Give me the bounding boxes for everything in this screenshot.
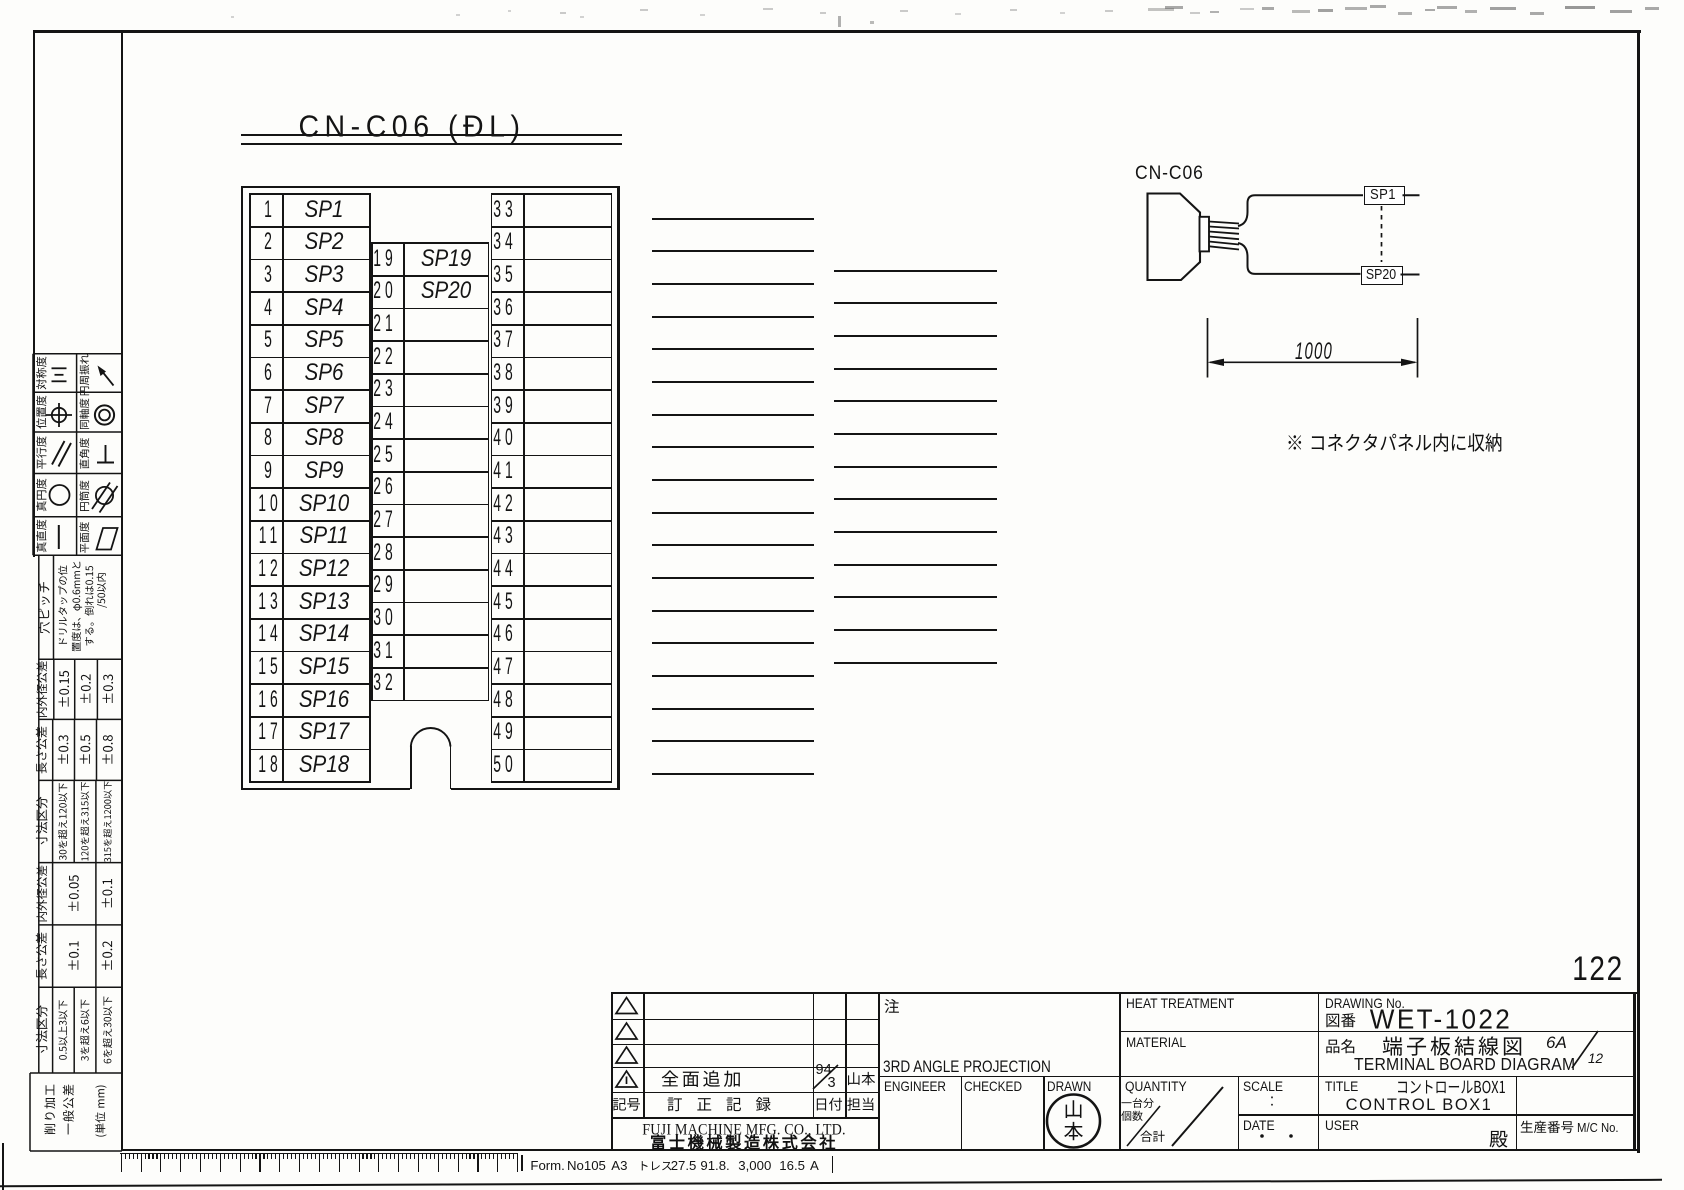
wire tail after SP1	[1403, 194, 1420, 196]
pin number 7	[264, 394, 276, 418]
revision header: correction record	[668, 1097, 771, 1111]
wire stub for pin 21	[834, 335, 997, 337]
circular runout arrow symbol	[101, 370, 114, 386]
pin number 12	[258, 557, 282, 581]
pin number 47	[494, 655, 518, 679]
length tolerance row 1	[36, 727, 47, 774]
heat treatment cell	[1126, 997, 1234, 1011]
pin number 28	[373, 541, 397, 565]
inner/outer dia tolerance row 2	[36, 866, 47, 922]
dimension extension line right	[1417, 318, 1419, 378]
page frame top border	[33, 30, 1641, 33]
connector cable clamp	[1200, 217, 1210, 252]
title cell	[1325, 1080, 1358, 1094]
wire stub for pin 29	[834, 596, 997, 598]
note: stored inside connector panel	[1288, 433, 1501, 451]
signal label SP20	[421, 279, 471, 304]
company name english	[642, 1122, 845, 1138]
size range row 1	[36, 797, 48, 846]
signal label SP19	[421, 246, 471, 271]
pin number 26	[373, 475, 397, 499]
sidebar machining general tolerance cell	[30, 1150, 122, 1152]
drawing number cell	[1325, 996, 1405, 1010]
pin number 10	[258, 492, 282, 516]
dimension extension line left	[1207, 318, 1209, 378]
wire stub for pin 13	[652, 610, 815, 612]
part name label	[1326, 1039, 1354, 1053]
drawn stamp (Yamamoto hanko)	[1047, 1095, 1100, 1148]
dashed line between SP1 and SP20	[1381, 206, 1383, 262]
pin number 9	[264, 459, 276, 483]
title underline 2	[241, 143, 623, 145]
wire stub for pin 2	[652, 250, 815, 252]
material cell	[1126, 1036, 1186, 1050]
pin number 41	[494, 459, 518, 483]
pin number 2	[264, 230, 276, 254]
connector CN-C06 body	[1148, 194, 1201, 281]
pin number 22	[373, 345, 397, 369]
pin number 25	[373, 443, 397, 467]
terminal block middle column (pins 19-32)	[371, 242, 489, 244]
wire stub for pin 19	[834, 270, 997, 272]
signal label SP6	[305, 361, 344, 386]
wire stub for pin 17	[652, 740, 815, 742]
pin number 11	[258, 524, 281, 548]
production number label	[1521, 1121, 1574, 1133]
pin number 8	[264, 426, 276, 450]
dimension value 1000	[1295, 340, 1333, 364]
signal label SP7	[305, 394, 344, 419]
wire stub for pin 24	[834, 433, 997, 435]
sidebar labels row5: straightness / flatness	[36, 520, 46, 553]
form line end tick	[832, 1156, 834, 1172]
pin number 39	[494, 394, 518, 418]
signal label SP4	[305, 295, 344, 320]
hole pitch note (4 rotated lines)	[58, 566, 67, 644]
signal label SP5	[305, 328, 344, 353]
pin number 45	[494, 590, 518, 614]
wire stub for pin 28	[834, 564, 997, 566]
revision 4 description: full addition	[662, 1070, 740, 1087]
main drawing frame left border	[121, 30, 123, 1151]
revision 4 date 94/3	[816, 1063, 832, 1078]
signal label SP14	[299, 622, 349, 647]
wire stub for pin 5	[652, 348, 815, 350]
pin number 1	[264, 198, 276, 222]
parallelism symbol	[52, 441, 65, 465]
signal label SP12	[299, 557, 349, 582]
pin number 17	[258, 720, 282, 744]
wire stub for pin 3	[652, 283, 815, 285]
symmetry symbol	[52, 367, 67, 369]
connector reference label CN-C06	[1135, 164, 1204, 184]
pin number 6	[264, 361, 276, 385]
flatness symbol	[97, 528, 118, 550]
wire tail after SP20	[1401, 274, 1420, 276]
revision header: date	[817, 1098, 842, 1111]
wire stub for pin 6	[652, 381, 815, 383]
sidebar tolerance table grid	[39, 554, 122, 556]
notch semicircle arc	[411, 728, 451, 746]
wire stub for pin 9	[652, 479, 815, 481]
pin number 14	[258, 622, 282, 646]
signal label SP3	[305, 263, 344, 288]
pin number 24	[373, 410, 397, 434]
straightness symbol	[58, 525, 60, 549]
pin number 32	[373, 671, 397, 695]
wire stub for pin 18	[652, 773, 815, 775]
wire stub for pin 7	[652, 414, 815, 416]
wire stub for pin 12	[652, 577, 815, 579]
pin number 48	[494, 688, 518, 712]
wire stub for pin 11	[652, 544, 815, 546]
connector lead wires fanning out	[1209, 222, 1239, 224]
title: control box1 (katakana)	[1398, 1080, 1505, 1093]
wire stub for pin 30	[834, 629, 997, 631]
revision triangle mark 1	[616, 998, 637, 1014]
wire stub for pin 4	[652, 316, 815, 318]
circularity symbol	[50, 485, 70, 505]
wire stub for pin 15	[652, 675, 815, 677]
pin number 43	[494, 524, 518, 548]
signal label SP17	[299, 720, 349, 745]
pin number 27	[373, 508, 397, 532]
ruler ticks	[121, 1153, 122, 1172]
title underline 1	[241, 134, 623, 136]
drawing title CN-C06 (DL)	[298, 110, 525, 141]
length tolerance row 2	[36, 933, 47, 980]
pin number 3	[264, 263, 276, 287]
pin number 49	[494, 720, 518, 744]
terminal block left column (pins 1-18)	[249, 193, 371, 195]
sidebar geometric tolerance symbol table	[33, 353, 122, 355]
wire stub for pin 23	[834, 400, 997, 402]
signal label SP10	[299, 492, 349, 517]
pin number 20	[373, 279, 397, 303]
sidebar labels row1: symmetry / circular runout	[36, 357, 46, 390]
ruler end tick	[521, 1155, 523, 1171]
wire stub for pin 22	[834, 368, 997, 370]
signal label SP2	[305, 230, 344, 255]
position symbol	[52, 408, 66, 422]
terminal tag SP20	[1361, 266, 1403, 286]
scale cell	[1243, 1080, 1283, 1094]
machining general tolerance cell text	[44, 1085, 55, 1135]
pin number 4	[264, 296, 276, 320]
revision triangle mark 2	[616, 1023, 637, 1039]
pin number 46	[494, 622, 518, 646]
user cell	[1325, 1119, 1359, 1133]
quantity annotations	[1121, 1098, 1153, 1108]
pin number 50	[494, 753, 518, 777]
signal label SP16	[299, 688, 349, 713]
signal label SP18	[299, 753, 349, 778]
wire stub for pin 14	[652, 642, 815, 644]
pin number 18	[258, 753, 282, 777]
dimension line with arrowheads	[1210, 361, 1415, 363]
connector keying notch	[410, 746, 412, 790]
cable trunk to SP20	[1238, 243, 1361, 274]
scan noise speckles along top edge	[560, 12, 566, 14]
signal label SP1	[305, 197, 344, 222]
wire stub for pin 16	[652, 708, 815, 710]
drawing number kanji	[1326, 1013, 1355, 1027]
signal label SP8	[305, 426, 344, 451]
page frame right border	[1637, 30, 1640, 1153]
toresu (trace) katakana	[642, 1161, 672, 1170]
pin number 42	[494, 492, 518, 516]
quantity cell	[1125, 1080, 1187, 1094]
form number text	[530, 1159, 564, 1172]
note label	[885, 999, 899, 1013]
signal label SP11	[300, 524, 349, 549]
pin number 30	[373, 606, 397, 630]
signal label SP13	[299, 590, 349, 615]
part name: terminal board diagram (kanji)	[1383, 1036, 1522, 1055]
sheet 6A/12	[1546, 1034, 1567, 1051]
cable trunk to SP1	[1238, 195, 1363, 226]
wire stub for pin 1	[652, 218, 815, 220]
revision header: symbol	[613, 1098, 640, 1111]
pin number 33	[494, 198, 518, 222]
hole pitch label	[38, 582, 50, 633]
date cell	[1243, 1119, 1275, 1133]
ruler scale top line	[120, 1153, 518, 1155]
projection / signature section	[878, 992, 880, 1150]
size range row 2	[36, 1005, 48, 1054]
pin number 16	[258, 688, 282, 712]
3rd angle projection label	[883, 1058, 1051, 1075]
data section grid	[1119, 992, 1121, 1150]
pin number 13	[258, 590, 282, 614]
pin number 29	[373, 573, 397, 597]
pin number 37	[494, 328, 518, 352]
wire stub for pin 20	[834, 302, 997, 304]
revision table	[611, 992, 613, 1150]
terminal board outer outline	[241, 186, 620, 188]
pin number 35	[494, 263, 518, 287]
dono (honorific)	[1489, 1131, 1507, 1148]
perpendicularity symbol	[97, 462, 114, 464]
pin number 36	[494, 296, 518, 320]
pin number 19	[373, 247, 397, 271]
signal label SP9	[305, 459, 344, 484]
pin number 34	[494, 230, 518, 254]
pin number 31	[373, 639, 397, 663]
wire stub for pin 25	[834, 466, 997, 468]
company name japanese	[651, 1135, 835, 1150]
scanner bottom edge line	[0, 1179, 1662, 1188]
wire stub for pin 31	[834, 662, 997, 664]
pin number 5	[264, 328, 276, 352]
page number 122	[1572, 952, 1623, 986]
pin number 40	[494, 426, 518, 450]
title block top border	[611, 992, 1637, 994]
signal label SP15	[299, 655, 349, 680]
wire stub for pin 27	[834, 531, 997, 533]
page frame bottom border	[121, 1149, 1640, 1151]
pin number 15	[258, 655, 282, 679]
scanner left edge artifact	[2, 1143, 4, 1190]
wire stub for pin 10	[652, 512, 815, 514]
sidebar labels row2: position / coaxiality	[36, 396, 46, 429]
revision 4 person: Yamamoto	[848, 1072, 875, 1085]
pin number 23	[373, 377, 397, 401]
wire stub for pin 26	[834, 498, 997, 500]
inner/outer dia tolerance row 1	[36, 661, 47, 717]
pin number 44	[494, 557, 518, 581]
terminal tag SP1	[1364, 186, 1405, 205]
pin number 21	[373, 312, 397, 336]
coaxiality symbol	[95, 405, 114, 424]
terminal block right column (pins 33-50)	[491, 193, 613, 195]
wire stub for pin 8	[652, 446, 815, 448]
sidebar labels row4: circularity / cylindricity	[36, 479, 46, 512]
revision 4 warning triangle mark	[616, 1071, 637, 1087]
sidebar outer left border (top run)	[33, 30, 35, 557]
revision header: person	[847, 1098, 873, 1111]
cylindricity symbol	[96, 487, 113, 504]
revision triangle mark 3	[616, 1047, 637, 1063]
sidebar labels row3: parallelism / perpendicularity	[36, 436, 46, 469]
pin number 38	[494, 361, 518, 385]
